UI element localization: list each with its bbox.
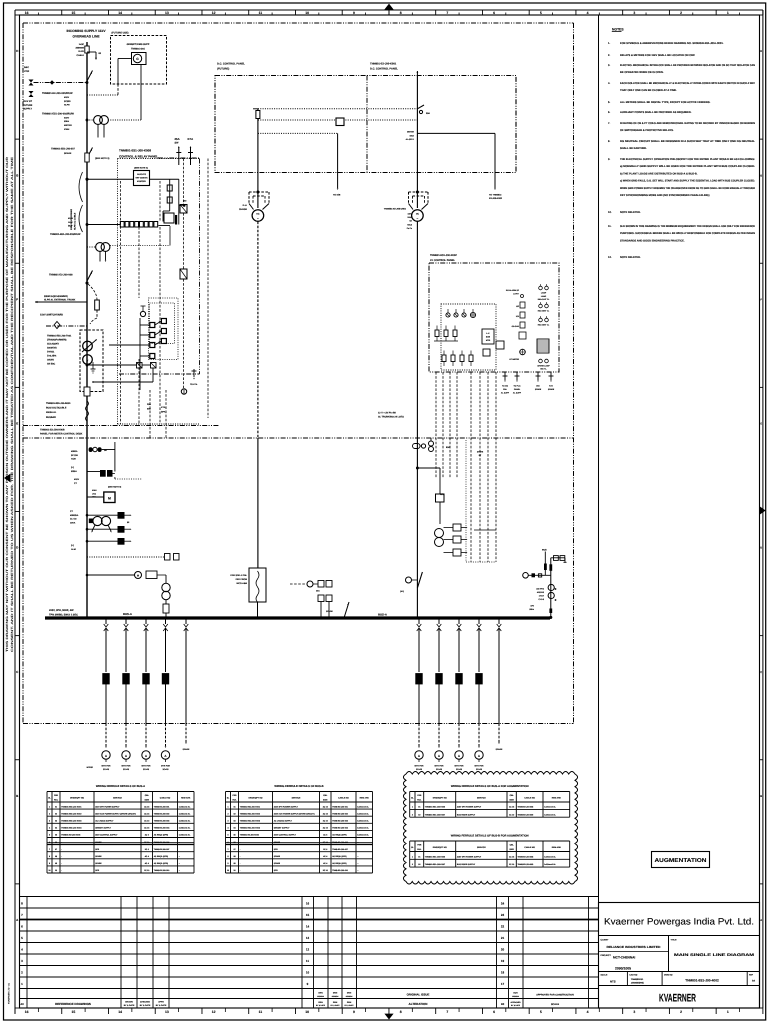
feeder at x=146: [145, 617, 147, 619]
svg-text:Kvaerner Powergas India Pvt: Kvaerner Powergas India Pvt. Ltd.: [604, 917, 754, 927]
svg-text:MTR: MTR: [486, 339, 491, 342]
svg-text:SCALE: SCALE: [551, 1003, 560, 1006]
svg-text:2C 10: 2C 10: [144, 820, 149, 823]
svg-text:CL0.5: CL0.5: [539, 598, 545, 601]
svg-text:415 PH4: 415 PH4: [536, 588, 545, 591]
svg-text:6: 6: [493, 1010, 495, 1014]
svg-text:2C 6: 2C 6: [145, 848, 149, 851]
svg-text:SCALE: SCALE: [601, 974, 608, 977]
riser junction: [416, 467, 418, 469]
svg-text:(SEE NOTE 3): (SEE NOTE 3): [95, 157, 110, 160]
svg-text:4C 16: 4C 16: [323, 805, 328, 808]
svg-text:(L): (L): [71, 466, 74, 469]
svg-text:A0: A0: [20, 1003, 24, 1006]
DG wiring: [118, 58, 132, 60]
svg-text:SPARE: SPARE: [548, 388, 555, 391]
centering mark triangle left: [4, 474, 11, 483]
svg-text:11kV SWITCHYARD: 11kV SWITCHYARD: [40, 314, 63, 317]
transformer earth: [92, 362, 94, 369]
svg-text:WHEN GRID POWER SUPPLY RESUMES: WHEN GRID POWER SUPPLY RESUMES THE CHANG…: [620, 187, 755, 190]
fuse row 2: [443, 351, 445, 356]
svg-text:E: E: [760, 423, 762, 426]
svg-text:P: P: [104, 678, 107, 683]
svg-text:25A: 25A: [316, 590, 320, 593]
svg-text:SUB: SUB: [486, 336, 491, 339]
svg-text:TNM8-E2-J00-001: TNM8-E2-J00-001: [332, 805, 348, 808]
right ruler band: [762, 10, 764, 1008]
svg-text:AS REQD (SPR): AS REQD (SPR): [154, 834, 169, 837]
svg-text:MCC-A&B: MCC-A&B: [237, 582, 248, 585]
svg-text:AL SUPP: AL SUPP: [501, 391, 510, 394]
svg-text:TNM8-E2-J00-003: TNM8-E2-J00-003: [154, 820, 170, 823]
svg-text:S&C: S&C: [24, 66, 29, 69]
DC panel inner divider: [366, 76, 368, 173]
svg-text:BY & DATE: BY & DATE: [331, 1004, 341, 1007]
svg-text:AL-SPLY: AL-SPLY: [406, 138, 415, 141]
DC outgoing drop right: [494, 133, 496, 188]
svg-text:O PH+: O PH+: [513, 293, 520, 296]
svg-text:IND-230V T.L: IND-230V T.L: [538, 310, 550, 313]
svg-text:SUPPLY: SUPPLY: [23, 108, 32, 111]
svg-text:KVAERNER: KVAERNER: [659, 993, 696, 1005]
svg-text:02: 02: [418, 813, 420, 816]
feeder at x=186: [185, 617, 187, 619]
panel top dash-dot link: [158, 157, 200, 159]
svg-text:MTR/D: MTR/D: [87, 766, 94, 769]
svg-text:2: 2: [680, 1010, 682, 1014]
svg-text:WIRING FERRULE DETAILS OF BUS-: WIRING FERRULE DETAILS OF BUS-A FOR AUGM…: [451, 785, 529, 788]
svg-text:SPARE: SPARE: [274, 862, 281, 865]
svg-text:TNM8-E2-J00-007: TNM8-E2-J00-007: [154, 848, 170, 851]
svg-text:415V 3PH POWER SUPPLY: 415V 3PH POWER SUPPLY: [457, 855, 482, 858]
svg-text:SPARE: SPARE: [535, 388, 542, 391]
svg-text:TO K7A: TO K7A: [190, 383, 198, 386]
svg-text:TNM8-E2-J00-001: TNM8-E2-J00-001: [154, 805, 170, 808]
LV sub box: [482, 329, 494, 344]
svg-text:12 V + 3V Ph 4W: 12 V + 3V Ph 4W: [378, 412, 397, 415]
svg-text:DYN11: DYN11: [47, 351, 55, 354]
isolator link on riser: [85, 46, 89, 53]
PT circles: [96, 243, 105, 252]
svg-text:TNM8-E2-J00-009: TNM8-E2-J00-009: [518, 863, 534, 866]
svg-text:MTR FDR: MTR FDR: [161, 765, 171, 768]
svg-text:6: 6: [49, 841, 50, 844]
svg-text:MTR FDR: MTR FDR: [122, 765, 132, 768]
11kV riser bus: [86, 42, 88, 618]
feeder at x=459: [458, 617, 460, 619]
svg-text:DRN: DRN: [347, 992, 352, 995]
svg-text:CHRGR: CHRGR: [239, 208, 247, 211]
svg-text:07: 07: [233, 848, 235, 851]
svg-text:AL TRUNKING 24 LGTS: AL TRUNKING 24 LGTS: [378, 415, 404, 418]
svg-text:2C 10: 2C 10: [144, 869, 149, 872]
svg-text:TNM801-E51-J00-K004: TNM801-E51-J00-K004: [61, 827, 82, 830]
DC link box: [336, 118, 344, 126]
svg-text:TNM801-E2-J00-K005: TNM801-E2-J00-K005: [61, 834, 80, 837]
svg-text:7: 7: [446, 11, 448, 15]
svg-text:3: 3: [633, 1010, 635, 1014]
feeder at x=479: [478, 617, 480, 619]
svg-text:SIZE: SIZE: [509, 798, 514, 801]
svg-text:TNM8-E2-J00-008: TNM8-E2-J00-008: [518, 855, 534, 858]
AC panel inner dotted box: [441, 304, 496, 370]
svg-text:2: 2: [680, 11, 682, 15]
svg-text:13: 13: [165, 1010, 169, 1014]
svg-text:(FUTURE): (FUTURE): [217, 68, 229, 71]
svg-text:01: 01: [233, 805, 235, 808]
svg-text:AN 50C: AN 50C: [47, 363, 56, 366]
vertical panel wires: [120, 181, 122, 424]
svg-text:02: 02: [233, 812, 235, 815]
svg-text:19: 19: [501, 959, 505, 963]
svg-text:3Cx25: 3Cx25: [123, 768, 130, 771]
svg-text:LAMP: LAMP: [541, 295, 547, 298]
svg-text:TNM8-E2-J00-010: TNM8-E2-J00-010: [154, 869, 170, 872]
svg-text:MTR FDR: MTR FDR: [102, 765, 112, 768]
svg-text:13: 13: [165, 11, 169, 15]
svg-text:~: ~: [257, 217, 259, 221]
right metering riser: [550, 558, 552, 618]
svg-text:TNM801-E2-J00-001/R1/W: TNM801-E2-J00-001/R1/W: [42, 92, 73, 95]
svg-text:CLIENT: CLIENT: [601, 939, 610, 942]
spare switch: [406, 577, 412, 583]
svg-text:GENSET/ EMG SUPP: GENSET/ EMG SUPP: [127, 43, 150, 46]
svg-text:D.C. CONTROL PANEL: D.C. CONTROL PANEL: [217, 63, 245, 66]
svg-text:10: 10: [48, 869, 50, 872]
svg-text:4C 16: 4C 16: [323, 812, 328, 815]
svg-text:3Cx25: 3Cx25: [476, 768, 483, 771]
svg-text:24: 24: [501, 902, 505, 906]
svg-text:MTR FDR: MTR FDR: [475, 765, 485, 768]
bell symbol: [183, 159, 185, 205]
svg-text:AUX/LTG: AUX/LTG: [137, 173, 146, 176]
svg-text:THE ELECTRICAL SUPPLY OPERATIO: THE ELECTRICAL SUPPLY OPERATION PHILOSOP…: [620, 158, 755, 161]
svg-text:2C 10: 2C 10: [323, 869, 328, 872]
svg-text:11: 11: [259, 11, 263, 15]
svg-text:TNM8-E2-J00-009: TNM8-E2-J00-009: [518, 813, 534, 816]
LV aux contacts: [100, 470, 106, 477]
svg-text:MTR FDR: MTR FDR: [142, 765, 152, 768]
svg-text:TNM801-E51-J00-K004: TNM801-E51-J00-K004: [240, 827, 261, 830]
panel internal dash-dot: [119, 373, 200, 375]
svg-text:E: E: [16, 422, 18, 426]
DC left riser: [257, 109, 259, 208]
svg-text:2: 2: [49, 812, 50, 815]
svg-text:BY & DATE: BY & DATE: [124, 1004, 135, 1007]
svg-text:TNM801-E51-J00-T001: TNM801-E51-J00-T001: [47, 335, 72, 338]
svg-text:01: 01: [418, 806, 420, 809]
aux CT box 2: [180, 269, 187, 279]
svg-text:1600KVA: 1600KVA: [47, 347, 57, 350]
svg-text:BUS RISER SUPPLY: BUS RISER SUPPLY: [457, 863, 476, 866]
svg-text:14: 14: [118, 11, 122, 15]
ammeter: [475, 751, 483, 759]
svg-text:OF SWITCHGEAR & PROTECTIVE REL: OF SWITCHGEAR & PROTECTIVE RELAYS.: [620, 129, 674, 132]
svg-text:BUS-A: BUS-A: [378, 613, 387, 617]
svg-text:05: 05: [233, 834, 235, 837]
svg-text:AC LTG/DG SUPPLY: AC LTG/DG SUPPLY: [95, 820, 114, 823]
svg-text:CHECKED: CHECKED: [140, 1001, 150, 1004]
svg-text:TO DG: TO DG: [502, 385, 508, 388]
aux CT box: [180, 205, 187, 214]
svg-text:1x25mm2 AL: 1x25mm2 AL: [357, 820, 369, 823]
main LV bus A: [45, 616, 550, 619]
svg-text:BUS DUCT/CABLE: BUS DUCT/CABLE: [46, 407, 67, 410]
svg-text:TO D/B: TO D/B: [333, 194, 341, 197]
svg-text:TNM8-E2-J00-010: TNM8-E2-J00-010: [332, 869, 348, 872]
svg-text:AC LTG/DG SUPPLY: AC LTG/DG SUPPLY: [274, 820, 293, 823]
svg-text:TNM801-E51-J00-B001: TNM801-E51-J00-B001: [46, 402, 71, 405]
svg-text:03: 03: [233, 820, 235, 823]
svg-text:ELECTRO- MECHANICAL INTERLOCK: ELECTRO- MECHANICAL INTERLOCK SHALL BE P…: [620, 64, 755, 67]
svg-text:TNM801-E51-J00-K00Z: TNM801-E51-J00-K00Z: [430, 254, 457, 257]
svg-text:14: 14: [118, 1010, 122, 1014]
ammeter: [142, 751, 150, 759]
aux supply wiring: [150, 178, 179, 180]
svg-text:1x25mm2 AL: 1x25mm2 AL: [357, 827, 369, 830]
LV aux dotted wire: [87, 556, 164, 558]
svg-text:Z=6.25%: Z=6.25%: [47, 355, 56, 358]
disconnect switch S2: [87, 148, 93, 159]
bottom ruler band: [15, 1008, 763, 1014]
svg-text:DCR: DCR: [513, 992, 518, 995]
svg-text:1: 1: [49, 805, 50, 808]
svg-text:15: 15: [72, 11, 76, 15]
svg-text:SHALL BE EARTHED.: SHALL BE EARTHED.: [620, 147, 647, 150]
svg-text:SPARE: SPARE: [326, 610, 333, 613]
svg-text:4C 16: 4C 16: [509, 855, 514, 858]
svg-text:SPR: SPR: [274, 848, 279, 851]
svg-text:6: 6: [493, 11, 495, 15]
svg-text:XLPE: XLPE: [78, 50, 84, 53]
svg-text:6: 6: [227, 841, 228, 844]
svg-text:SPARE LAMP: SPARE LAMP: [537, 365, 550, 368]
svg-text:02/09/04: 02/09/04: [346, 995, 353, 998]
svg-text:AUGMENTATION: AUGMENTATION: [655, 858, 707, 864]
svg-text:2C 10: 2C 10: [144, 841, 149, 844]
svg-text:NOTES: NOTES: [612, 28, 624, 32]
svg-text:3P SW: 3P SW: [71, 454, 79, 457]
svg-text:TNM801-E2-J00-K00B: TNM801-E2-J00-K00B: [40, 429, 65, 432]
svg-text:1.: 1.: [608, 42, 610, 45]
svg-text:11.: 11.: [608, 225, 612, 228]
incoming cable riser box: [249, 568, 266, 602]
svg-text:AS REQD (SPR): AS REQD (SPR): [332, 834, 347, 837]
svg-text:SERVICE: SERVICE: [113, 797, 122, 800]
svg-text:20: 20: [501, 948, 505, 952]
svg-text:MDI: MDI: [92, 496, 96, 499]
svg-text:1x25mm2 AL: 1x25mm2 AL: [179, 834, 191, 837]
notes column divider: [598, 15, 600, 903]
svg-text:11kV GT: 11kV GT: [23, 100, 33, 103]
DC wire 1: [258, 108, 417, 110]
svg-text:SIZE: SIZE: [145, 798, 150, 801]
svg-text:SPR: SPR: [95, 869, 100, 872]
svg-text:415V CONTROL SUPPLY: 415V CONTROL SUPPLY: [95, 834, 118, 837]
svg-text:09A: 09A: [426, 112, 430, 115]
svg-text:RELAYS & METERS FOR 11kV SHALL: RELAYS & METERS FOR 11kV SHALL BE LOCATE…: [620, 54, 695, 57]
svg-text:4000A AL: 4000A AL: [46, 411, 57, 414]
DC wire 2: [258, 119, 417, 121]
DC riser right: [416, 222, 418, 441]
AC control panel boundary: [429, 263, 559, 372]
svg-text:MAIN SINGLE LINE DIAGRAM: MAIN SINGLE LINE DIAGRAM: [674, 953, 754, 957]
svg-text:TNM8-E2-J00-006: TNM8-E2-J00-006: [332, 841, 348, 844]
svg-text:TNM8-E2-J00-004: TNM8-E2-J00-004: [332, 827, 349, 830]
svg-text:09: 09: [233, 862, 235, 865]
svg-text:R0: R0: [501, 1003, 505, 1006]
fuse F2: [85, 153, 89, 162]
svg-text:01: 01: [55, 805, 57, 808]
svg-text:SPR: SPR: [95, 848, 100, 851]
left ruler band: [15, 15, 20, 1008]
DC riser left: [257, 222, 259, 439]
svg-text:415V 3PH POWER SUPPLY: 415V 3PH POWER SUPPLY: [457, 806, 482, 809]
svg-text:3Cx25: 3Cx25: [163, 768, 170, 771]
svg-text:SPARE: SPARE: [496, 748, 503, 751]
svg-text:10.: 10.: [608, 211, 612, 214]
svg-text:REM ARK: REM ARK: [360, 797, 370, 800]
svg-text:BUS: BUS: [542, 549, 547, 552]
svg-text:D.C. CONTROL PANEL: D.C. CONTROL PANEL: [370, 68, 398, 71]
svg-text:10: 10: [305, 1010, 309, 1014]
svg-text:110V: 110V: [407, 213, 412, 216]
svg-text:XLPE AL EXTERNAL TRUNK: XLPE AL EXTERNAL TRUNK: [44, 299, 76, 302]
svg-text:AUXILIARY POINTS SHALL BE PROV: AUXILIARY POINTS SHALL BE PROVIDED AS RE…: [620, 111, 692, 114]
lightning arrester tap: [87, 51, 96, 53]
main breaker: [87, 271, 93, 282]
svg-text:CABLE NO: CABLE NO: [160, 797, 171, 800]
LV relay boxes: [118, 512, 125, 519]
svg-text:300MM2: 300MM2: [75, 47, 84, 50]
svg-text:21: 21: [501, 936, 505, 940]
svg-text:THIS DRAWING MAY NOT WITHOUT O: THIS DRAWING MAY NOT WITHOUT OUR CONSENT…: [5, 156, 9, 652]
svg-text:FER: FER: [54, 794, 59, 797]
svg-text:415V: 415V: [74, 478, 80, 481]
svg-text:DWG NO: DWG NO: [664, 974, 673, 977]
svg-text:2: 2: [412, 813, 413, 816]
svg-text:CONTROL & RELAY PANEL: CONTROL & RELAY PANEL: [119, 154, 158, 158]
svg-text:8: 8: [227, 855, 228, 858]
svg-text:TNM801-E51-J00-K001: TNM801-E51-J00-K001: [61, 805, 81, 808]
svg-text:CABLE: CABLE: [76, 54, 84, 57]
LV CT pair: [93, 516, 102, 525]
feeder at x=499: [498, 617, 500, 619]
svg-text:TNM801-E51-J00-007: TNM801-E51-J00-007: [51, 148, 75, 151]
svg-text:5: 5: [540, 1010, 542, 1014]
tap diamond: [50, 80, 54, 84]
svg-text:415V: 415V: [64, 96, 70, 99]
svg-text:1x25mm2 AL: 1x25mm2 AL: [179, 805, 191, 808]
svg-text:415V AUX POWER SUPPLY (SPARE C: 415V AUX POWER SUPPLY (SPARE CIRCUIT): [274, 812, 315, 815]
svg-text:(SEE NOTE 4): (SEE NOTE 4): [134, 167, 148, 170]
incomer fuse on riser: [413, 444, 421, 449]
svg-text:1x25mm2 AL: 1x25mm2 AL: [544, 855, 556, 858]
svg-text:3Cx25: 3Cx25: [456, 768, 463, 771]
svg-text:TO TNM801-: TO TNM801-: [489, 194, 502, 197]
svg-text:02/09/04: 02/09/04: [512, 995, 519, 998]
svg-text:TNM8-E2-J00-006: TNM8-E2-J00-006: [154, 841, 170, 844]
lattice exit wires: [109, 344, 140, 346]
svg-text:CABLE NO: CABLE NO: [524, 797, 535, 800]
svg-text:MTR FDR: MTR FDR: [435, 765, 445, 768]
svg-text:REM ARK: REM ARK: [181, 797, 191, 800]
svg-text:5: 5: [227, 834, 228, 837]
svg-text:ONAN: ONAN: [47, 359, 54, 362]
svg-text:~: ~: [417, 217, 419, 221]
svg-text:5: 5: [540, 11, 542, 15]
relay lattice cluster: [149, 298, 179, 360]
ammeter: [102, 751, 110, 759]
bus duct flex: [86, 401, 89, 421]
ammeter: [435, 751, 443, 759]
NGR: [84, 387, 90, 396]
PT stack right: [435, 529, 444, 538]
svg-text:3Cx25: 3Cx25: [103, 768, 110, 771]
svg-text:TNM801-E51-J00-4002: TNM801-E51-J00-4002: [685, 979, 719, 983]
svg-text:10: 10: [305, 11, 309, 15]
svg-text:J004002(R0): J004002(R0): [631, 982, 644, 985]
svg-text:BY & DATE: BY & DATE: [511, 1004, 521, 1007]
revision row numbers: [21, 902, 504, 987]
mid spare cluster: [290, 583, 307, 585]
svg-text:4C 6: 4C 6: [145, 834, 149, 837]
switchgear room boundary: [23, 22, 574, 24]
svg-text:1: 1: [412, 806, 413, 809]
svg-text:MTR FDR: MTR FDR: [455, 765, 465, 768]
svg-text:3: 3: [49, 820, 50, 823]
outgoing verticals: [149, 390, 151, 438]
svg-text:50Hz: 50Hz: [529, 608, 534, 611]
svg-text:1x25mm2 AL: 1x25mm2 AL: [179, 812, 191, 815]
svg-text:THAT ONLY ONE CAN BE CLOSED AT: THAT ONLY ONE CAN BE CLOSED AT A TIME.: [620, 89, 677, 92]
svg-text:Fe Fe: Fe Fe: [407, 227, 413, 230]
panel partition line B: [23, 437, 574, 439]
svg-text:01: 01: [418, 855, 420, 858]
svg-text:1x25mm2 AL: 1x25mm2 AL: [357, 834, 369, 837]
svg-text:FDR SDE A PNL: FDR SDE A PNL: [230, 574, 247, 577]
feeder at x=439: [438, 617, 440, 619]
svg-text:SIZE: SIZE: [323, 798, 328, 801]
DC right fuse: [419, 110, 422, 113]
svg-text:1x25mm2 AL: 1x25mm2 AL: [179, 820, 191, 823]
svg-text:WIRING FERRULE DETAILS OF BUS-: WIRING FERRULE DETAILS OF BUS-A: [96, 785, 145, 788]
svg-text:11: 11: [259, 1010, 263, 1014]
centering mark triangle right: [760, 506, 766, 514]
svg-text:WIRING FERRULE DETAILS OF BUS-: WIRING FERRULE DETAILS OF BUS-B FOR AUGM…: [451, 835, 529, 838]
svg-text:XLPE AL CABLE: XLPE AL CABLE: [73, 212, 76, 230]
svg-text:HT METER: HT METER: [509, 358, 519, 361]
svg-text:3Cx25: 3Cx25: [436, 768, 443, 771]
svg-text:DC: DC: [416, 213, 420, 216]
svg-text:DRG/EQPT NO: DRG/EQPT NO: [70, 797, 84, 800]
svg-text:SPARE: SPARE: [64, 152, 72, 155]
svg-text:2: 2: [227, 812, 228, 815]
svg-text:1T/1T: 1T/1T: [539, 595, 545, 598]
svg-text:18: 18: [501, 971, 505, 975]
svg-text:0A: 0A: [752, 980, 755, 983]
svg-text:CL 0.5: CL 0.5: [70, 518, 77, 521]
svg-text:15: 15: [72, 1010, 76, 1014]
svg-text:BY & DATE: BY & DATE: [345, 1004, 355, 1007]
svg-text:TNM801-E51-J00-K003: TNM801-E51-J00-K003: [61, 820, 81, 823]
svg-text:SPARE: SPARE: [274, 855, 281, 858]
panel partition line A: [23, 425, 219, 427]
svg-text:23: 23: [501, 913, 505, 917]
svg-text:IND T.L: IND T.L: [540, 368, 547, 371]
svg-text:1x3C: 1x3C: [79, 43, 85, 46]
svg-text:AS REQD (SPR): AS REQD (SPR): [332, 862, 347, 865]
